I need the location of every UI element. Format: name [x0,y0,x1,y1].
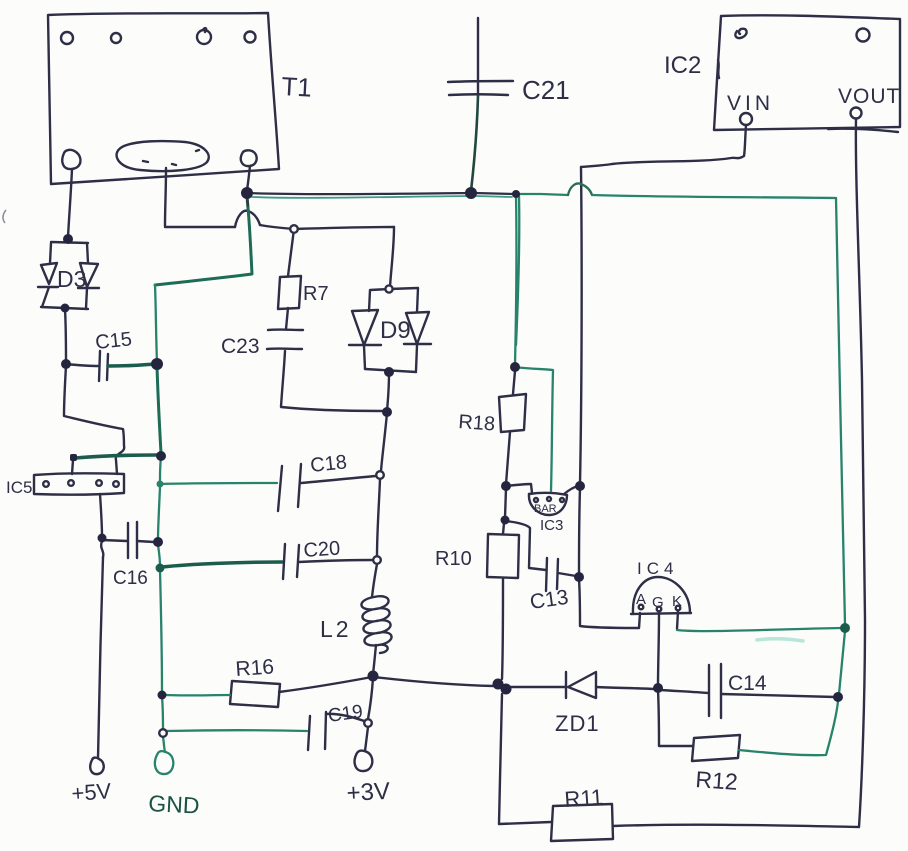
svg-text:VIN: VIN [727,92,774,115]
svg-text:G: G [652,594,664,611]
svg-text:IC4: IC4 [637,559,678,578]
svg-text:C18: C18 [309,451,348,477]
svg-text:IC3: IC3 [540,517,563,534]
svg-text:C15: C15 [94,328,133,354]
svg-text:T1: T1 [281,71,313,103]
svg-text:R16: R16 [235,655,275,681]
svg-text:C14: C14 [728,672,767,695]
svg-text:+5V: +5V [71,778,113,806]
svg-text:K: K [672,593,682,610]
svg-text:BAR: BAR [534,503,557,515]
svg-text:+3V: +3V [346,778,391,807]
svg-text:L2: L2 [320,616,352,642]
svg-text:R18: R18 [458,411,496,436]
svg-text:D3: D3 [57,266,86,292]
svg-text:C23: C23 [221,335,260,358]
svg-text:D9: D9 [380,317,411,344]
svg-text:A: A [636,591,646,608]
svg-text:IC5: IC5 [6,478,32,497]
svg-text:C21: C21 [522,75,570,105]
svg-text:R12: R12 [695,766,739,795]
svg-text:GND: GND [148,790,200,819]
svg-text:ZD1: ZD1 [555,711,600,736]
svg-text:R7: R7 [303,283,329,305]
svg-text:IC2: IC2 [664,52,701,79]
svg-text:C20: C20 [303,537,341,562]
svg-text:C16: C16 [113,568,148,589]
svg-text:VOUT: VOUT [838,85,900,108]
svg-text:R11: R11 [564,784,604,812]
svg-text:R10: R10 [435,548,472,570]
